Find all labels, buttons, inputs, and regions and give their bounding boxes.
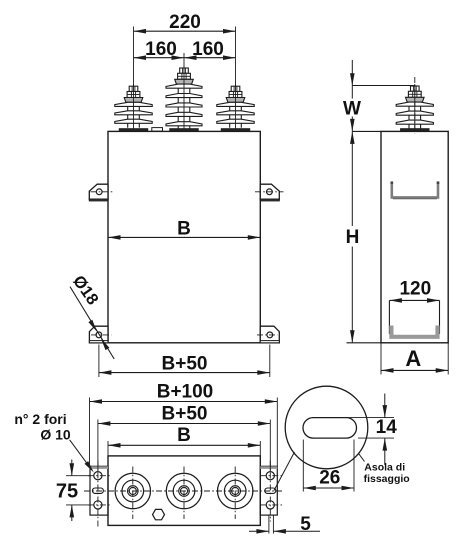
svg-text:B+50: B+50	[162, 403, 208, 424]
svg-text:Asola di: Asola di	[364, 461, 405, 473]
svg-text:B+50: B+50	[162, 354, 208, 375]
svg-text:B: B	[177, 425, 191, 446]
svg-text:B: B	[177, 219, 191, 240]
svg-text:A: A	[405, 346, 421, 371]
svg-text:26: 26	[319, 468, 340, 489]
svg-text:5: 5	[300, 514, 311, 535]
svg-text:fissaggio: fissaggio	[364, 473, 410, 485]
svg-text:n° 2 fori: n° 2 fori	[14, 411, 66, 427]
svg-text:14: 14	[376, 417, 398, 438]
svg-text:W: W	[343, 99, 361, 120]
svg-text:220: 220	[169, 12, 201, 33]
svg-text:75: 75	[56, 481, 78, 503]
svg-text:H: H	[346, 227, 360, 248]
svg-text:120: 120	[399, 278, 431, 299]
svg-text:B+100: B+100	[157, 382, 214, 403]
svg-text:160: 160	[192, 39, 224, 60]
svg-text:Ø 10: Ø 10	[40, 427, 71, 443]
svg-text:160: 160	[145, 39, 177, 60]
